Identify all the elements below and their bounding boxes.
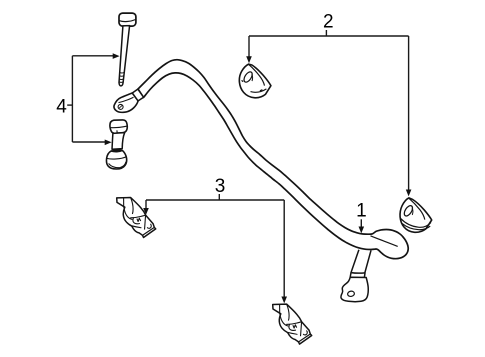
svg-text:3: 3 — [215, 176, 226, 197]
svg-text:4: 4 — [56, 96, 67, 117]
svg-text:2: 2 — [323, 11, 334, 32]
svg-text:1: 1 — [356, 201, 367, 222]
